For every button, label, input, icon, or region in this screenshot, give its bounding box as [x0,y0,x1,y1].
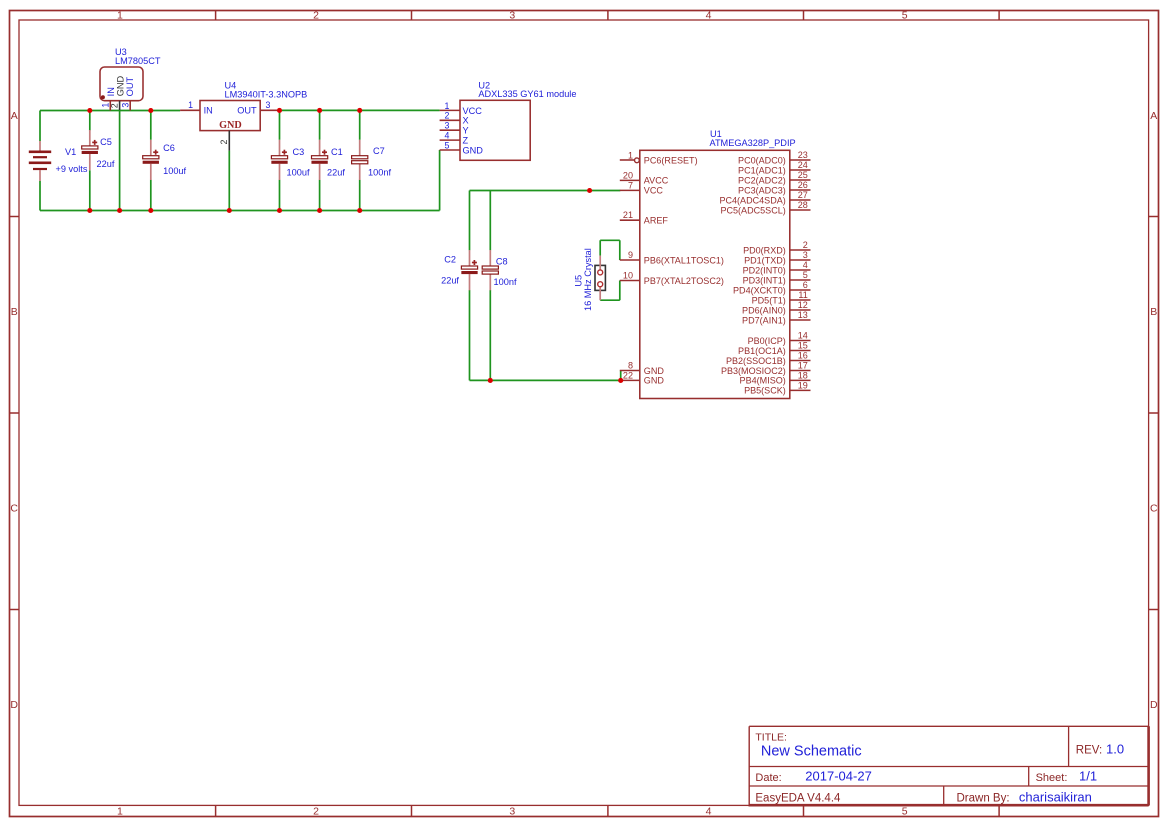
junction C7 top rail [357,108,362,113]
svg-text:Sheet:: Sheet: [1036,772,1068,784]
junction C6 top rail [148,108,153,113]
wire U3 GND down [119,110,121,211]
svg-text:GND: GND [463,145,484,155]
wire C7 bottom [359,180,361,211]
svg-text:2: 2 [803,240,808,250]
wire U2 GND down [439,150,441,211]
svg-text:14: 14 [798,331,808,341]
wire C6 top [150,111,152,140]
svg-text:Date:: Date: [755,772,781,784]
svg-text:18: 18 [798,370,808,380]
wire C3 bottom [279,180,281,211]
svg-text:Y: Y [463,126,469,136]
wire C3 top [279,110,281,139]
wire C8 branch [489,191,491,381]
capacitor C5 22uf [82,130,115,170]
svg-text:IN: IN [204,106,213,116]
svg-text:ATMEGA328P_PDIP: ATMEGA328P_PDIP [710,138,796,148]
svg-text:1/1: 1/1 [1079,769,1097,784]
svg-text:5: 5 [902,10,908,22]
svg-text:PD7(AIN1): PD7(AIN1) [742,315,786,325]
junction C1 bottom rail [317,208,322,213]
svg-text:16: 16 [798,351,808,361]
capacitor C6 100uf [143,140,187,180]
junction C1 top rail [317,108,322,113]
svg-text:3: 3 [803,250,808,260]
svg-text:1: 1 [628,150,633,160]
svg-text:B: B [11,306,18,318]
svg-text:C6: C6 [163,143,175,153]
svg-text:28: 28 [798,200,808,210]
junction C8 GND wire [488,378,493,383]
junction U4 GND bottom rail [227,208,232,213]
svg-text:20: 20 [623,170,633,180]
svg-text:VCC: VCC [644,186,664,196]
svg-text:C: C [1150,503,1158,515]
svg-text:PC3(ADC3): PC3(ADC3) [738,185,786,195]
wire +9V top rail [40,110,180,112]
svg-text:7: 7 [628,180,633,190]
wire C2 branch [469,191,471,381]
wire C5 bottom [89,170,91,210]
svg-text:15: 15 [798,341,808,351]
svg-text:A: A [11,110,18,122]
svg-text:16 MHz Crystal: 16 MHz Crystal [583,248,593,311]
wire 3.3V rail [280,109,440,111]
svg-text:GND: GND [644,366,665,376]
svg-text:2017-04-27: 2017-04-27 [805,769,872,784]
svg-text:26: 26 [798,180,808,190]
svg-text:C7: C7 [373,146,385,156]
svg-text:PD0(RXD): PD0(RXD) [743,245,786,255]
svg-text:GND: GND [219,120,242,131]
svg-text:13: 13 [798,310,808,320]
wire GND to U1 pin22 [470,379,621,381]
svg-text:8: 8 [628,361,633,371]
svg-text:LM7805CT: LM7805CT [115,56,161,66]
svg-text:2: 2 [445,111,450,121]
svg-text:AVCC: AVCC [644,176,669,186]
wire C7 top [359,110,361,139]
svg-text:PC6(RESET): PC6(RESET) [644,155,698,165]
svg-text:V1: V1 [65,147,76,157]
regulator U3 LM7805CT [100,47,161,110]
svg-text:100nf: 100nf [494,277,517,287]
junction C3 bottom rail [277,208,282,213]
svg-text:C5: C5 [100,137,112,147]
svg-text:1: 1 [188,100,193,110]
svg-text:X: X [463,116,469,126]
svg-text:1.0: 1.0 [1106,742,1124,757]
svg-text:PD3(INT1): PD3(INT1) [743,275,786,285]
svg-text:23: 23 [798,150,808,160]
svg-text:2: 2 [313,806,319,818]
svg-text:9: 9 [628,250,633,260]
wire C6 bottom [150,180,152,211]
svg-text:11: 11 [798,290,807,300]
wire U4 GND down [228,151,230,211]
svg-text:C: C [10,503,18,515]
svg-text:24: 24 [798,160,808,170]
svg-text:21: 21 [623,210,633,220]
wire VCC to U1 pin7 [470,190,621,192]
wire C1 top [319,110,321,139]
capacitor C2 22uf [441,250,478,290]
svg-text:4: 4 [706,10,712,22]
junction C5 bottom rail [87,208,92,213]
svg-text:100nf: 100nf [368,167,391,177]
wire C5 top [89,111,91,131]
junction C7 bottom rail [357,208,362,213]
svg-text:19: 19 [798,380,808,390]
svg-text:PD1(TXD): PD1(TXD) [744,255,786,265]
svg-text:D: D [10,699,18,711]
svg-text:2: 2 [219,140,229,145]
svg-text:PC1(ADC1): PC1(ADC1) [738,165,786,175]
capacitor C7 100nf [352,140,392,180]
svg-text:1: 1 [117,806,123,818]
svg-text:PC0(ADC0): PC0(ADC0) [738,155,786,165]
svg-text:PD2(INT0): PD2(INT0) [743,265,786,275]
svg-text:C2: C2 [444,255,456,265]
svg-text:10: 10 [623,271,633,281]
svg-text:REV:: REV: [1076,744,1102,756]
svg-text:27: 27 [798,190,808,200]
wire crystal to PB7 [600,281,620,301]
svg-text:EasyEDA V4.4.4: EasyEDA V4.4.4 [755,793,841,805]
junction U3 GND bottom rail [117,208,122,213]
svg-text:PB7(XTAL2TOSC2): PB7(XTAL2TOSC2) [644,276,724,286]
svg-text:4: 4 [445,131,450,141]
svg-text:C1: C1 [331,147,343,157]
svg-text:PB0(ICP): PB0(ICP) [748,336,786,346]
svg-text:GND: GND [644,376,665,386]
wire ground bottom rail [40,210,440,212]
svg-text:Drawn By:: Drawn By: [957,793,1010,805]
svg-text:1: 1 [445,101,450,111]
junction C5 top rail [87,108,92,113]
svg-text:ADXL335 GY61 module: ADXL335 GY61 module [478,89,576,99]
svg-text:PB3(MOSIOC2): PB3(MOSIOC2) [721,366,786,376]
crystal U5 16 MHz [574,248,606,311]
svg-text:3: 3 [445,121,450,131]
capacitor C1 22uf [311,140,345,180]
svg-text:3: 3 [509,10,515,22]
svg-text:PC2(ADC2): PC2(ADC2) [738,175,786,185]
svg-text:12: 12 [798,300,808,310]
wire battery positive [39,111,41,142]
svg-text:PB4(MISO): PB4(MISO) [740,376,786,386]
svg-text:LM3940IT-3.3NOPB: LM3940IT-3.3NOPB [225,90,308,100]
svg-text:C3: C3 [293,147,305,157]
svg-text:22uf: 22uf [97,159,115,169]
svg-text:100uf: 100uf [163,166,186,176]
svg-text:B: B [1150,306,1157,318]
svg-text:6: 6 [803,280,808,290]
wire GND riser to U1 pin8 [620,371,622,381]
svg-text:1: 1 [117,10,123,22]
wire battery negative [39,181,41,211]
svg-text:A: A [1150,110,1157,122]
svg-text:22: 22 [623,370,633,380]
svg-text:17: 17 [798,361,808,371]
svg-text:PD6(AIN0): PD6(AIN0) [742,305,786,315]
svg-text:25: 25 [798,170,808,180]
svg-text:3: 3 [509,806,515,818]
svg-text:TITLE:: TITLE: [755,732,787,744]
svg-text:VCC: VCC [463,106,483,116]
svg-text:3: 3 [266,100,271,110]
capacitor C3 100uf [271,140,310,180]
capacitor C8 100nf [482,250,517,290]
svg-text:C8: C8 [496,257,508,267]
wire crystal to PB6 [600,240,620,260]
junction VCC wire [587,188,592,193]
svg-text:OUT: OUT [237,106,257,116]
svg-text:New Schematic: New Schematic [761,744,862,760]
regulator U4 LM3940IT-3.3NOPB [180,81,307,151]
svg-text:OUT: OUT [125,77,135,97]
svg-text:PD4(XCKT0): PD4(XCKT0) [733,285,786,295]
svg-text:PD5(T1): PD5(T1) [752,295,786,305]
svg-text:PC4(ADC4SDA): PC4(ADC4SDA) [719,195,785,205]
mcu U1 ATMEGA328P_PDIP [620,129,811,399]
svg-text:PB2(SSOC1B): PB2(SSOC1B) [726,356,786,366]
svg-text:AREF: AREF [644,216,669,226]
battery V1 +9 volts [29,141,88,181]
junction U1 GND pins [618,378,623,383]
svg-text:PB6(XTAL1TOSC1): PB6(XTAL1TOSC1) [644,255,724,265]
junction U4 OUT / C3 [277,108,282,113]
svg-text:22uf: 22uf [441,276,459,286]
svg-text:3: 3 [121,103,131,108]
svg-text:4: 4 [706,806,712,818]
svg-text:2: 2 [313,10,319,22]
svg-text:D: D [1150,699,1158,711]
svg-text:5: 5 [803,270,808,280]
svg-text:Z: Z [463,136,469,146]
svg-text:PB5(SCK): PB5(SCK) [744,386,786,396]
junction C6 bottom rail [148,208,153,213]
svg-text:100uf: 100uf [287,167,310,177]
svg-text:2: 2 [109,103,119,108]
svg-text:22uf: 22uf [327,167,345,177]
svg-text:4: 4 [803,260,808,270]
svg-text:GND: GND [116,76,126,97]
wire C1 bottom [319,180,321,211]
svg-text:5: 5 [445,140,450,150]
svg-text:+9 volts: +9 volts [56,164,88,174]
module U2 ADXL335 GY61 [440,80,577,160]
svg-text:U5: U5 [574,275,584,287]
svg-text:PC5(ADC5SCL): PC5(ADC5SCL) [720,205,785,215]
svg-text:PB1(OC1A): PB1(OC1A) [738,346,786,356]
svg-text:charisaikiran: charisaikiran [1019,790,1092,805]
svg-text:5: 5 [902,806,908,818]
